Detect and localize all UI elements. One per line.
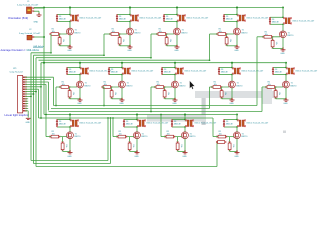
diode D3.1 bbox=[56, 119, 58, 127]
svg-text:BS170: BS170 bbox=[85, 85, 91, 87]
resistor R1.2b bbox=[118, 36, 121, 45]
capacitor C2 bbox=[27, 35, 34, 40]
wire pulldown bottom 2.2 bbox=[112, 98, 122, 99]
resistor R1.5b label bbox=[275, 42, 277, 45]
transistor T3.1 label bbox=[75, 133, 81, 138]
resistor R2.1a label bbox=[62, 82, 65, 86]
svg-text:1N4148: 1N4148 bbox=[69, 72, 76, 74]
svg-text:1N4148: 1N4148 bbox=[275, 72, 282, 74]
diode D2.5 label bbox=[275, 69, 282, 74]
ground cell 3.2 label bbox=[134, 156, 139, 158]
wire pair bottom 3.3 bbox=[172, 126, 186, 128]
wire X1 pin2 down bbox=[34, 11, 39, 14]
ground cell 2.5 bbox=[284, 98, 289, 101]
wire drain 3.2 bbox=[136, 127, 138, 132]
transistor T1.3 label bbox=[182, 30, 188, 35]
wire X1 to rail bbox=[34, 7, 44, 9]
resistor R2.4b label bbox=[224, 92, 226, 95]
transistor T1.1 bbox=[67, 28, 74, 35]
wire drain 3.3 bbox=[184, 127, 186, 132]
wire gate 2.4 bbox=[212, 86, 229, 88]
svg-text:1N4148: 1N4148 bbox=[126, 124, 133, 126]
ground JP1 bbox=[26, 118, 31, 119]
svg-text:10k: 10k bbox=[122, 39, 124, 42]
wire drain 2.5 bbox=[285, 75, 287, 82]
wire drain 3.1 bbox=[69, 127, 71, 132]
resistor R1.4a label bbox=[219, 29, 222, 33]
wire gate stub r2c3 bbox=[151, 86, 156, 88]
diode D1.1 bbox=[56, 14, 58, 21]
transistor T3.4 label bbox=[242, 133, 248, 138]
ground JP1 label bbox=[26, 122, 31, 124]
wire pulldown bottom 3.3 bbox=[178, 150, 185, 151]
wire ctrl row3 c4 bbox=[212, 118, 214, 137]
svg-text:10k: 10k bbox=[104, 84, 107, 86]
svg-text:T1: T1 bbox=[75, 30, 77, 32]
ground X1 bbox=[37, 13, 42, 16]
wire stair v48.5 bbox=[48, 82, 50, 111]
wire feed 4 bbox=[39, 59, 211, 61]
transistor T2.1 bbox=[77, 81, 84, 88]
wire drain 2.2 bbox=[121, 75, 123, 82]
relay coil K3.3 bbox=[185, 120, 194, 128]
ground cell 1.3 label bbox=[174, 50, 179, 52]
net label avantage bbox=[1, 49, 40, 52]
svg-text:GND: GND bbox=[119, 103, 124, 105]
relay coil K1.1 bbox=[70, 15, 79, 22]
svg-text:GND: GND bbox=[34, 22, 39, 24]
wire pair bottom 3.1 bbox=[57, 126, 71, 128]
transistor T2.2 bbox=[119, 81, 126, 88]
wire pair top 1.1 bbox=[57, 14, 71, 16]
ground cell 2.2 label bbox=[119, 103, 124, 105]
svg-text:BS170: BS170 bbox=[180, 85, 186, 87]
svg-text:T1: T1 bbox=[190, 133, 192, 135]
diode D3.1 label bbox=[59, 121, 66, 126]
transistor T3.4 bbox=[234, 132, 241, 139]
wire gate stub r2c5 bbox=[262, 86, 267, 88]
transistor T2.5 bbox=[283, 81, 290, 88]
resistor R1.3b bbox=[165, 36, 168, 45]
svg-text:1N4148: 1N4148 bbox=[174, 124, 181, 126]
ground cell 3.1 bbox=[68, 151, 73, 154]
wire pair top 1.3 bbox=[164, 14, 178, 16]
svg-text:T1: T1 bbox=[180, 83, 182, 85]
wire pulldown bottom 3.1 bbox=[63, 150, 70, 151]
resistor R3.3a label bbox=[167, 131, 170, 135]
resistor R1.1b bbox=[58, 36, 61, 45]
ground X1 label bbox=[34, 22, 39, 24]
ground cell 3.2 bbox=[135, 151, 140, 154]
ground cell 1.5 bbox=[281, 48, 286, 51]
resistor R1.4a bbox=[217, 33, 228, 36]
svg-text:G5V-1 7e-tri-tof_OO-z0T: G5V-1 7e-tri-tof_OO-z0T bbox=[79, 122, 102, 125]
svg-text:10k: 10k bbox=[52, 31, 55, 33]
svg-text:T1: T1 bbox=[75, 133, 77, 135]
svg-text:C1: C1 bbox=[27, 1, 29, 3]
resistor R3.2a label bbox=[119, 131, 122, 135]
transistor T1.3 bbox=[174, 28, 181, 35]
relay coil K3.1 bbox=[70, 120, 79, 128]
wire gate stub r2c1 bbox=[56, 86, 61, 88]
wire gate 1.3 bbox=[157, 33, 174, 35]
wire stair v41 bbox=[40, 63, 42, 118]
svg-text:10k: 10k bbox=[229, 39, 231, 42]
transistor T2.2 label bbox=[127, 83, 133, 88]
diode D1.5 bbox=[269, 17, 271, 24]
wire pulldown top 3.1 bbox=[62, 137, 64, 143]
wire gate stub r1c4 bbox=[210, 33, 218, 35]
wire rail row2 bbox=[41, 62, 286, 65]
ground cell 2.3 label bbox=[172, 103, 177, 105]
wire stub C2 bbox=[34, 36, 44, 38]
resistor R3.4b bbox=[228, 142, 231, 152]
wire pulldown bottom 3.2 bbox=[130, 150, 137, 151]
relay coil K2.1 label bbox=[89, 70, 112, 73]
diode D2.1 bbox=[66, 67, 68, 74]
resistor R3.4c bbox=[216, 141, 226, 144]
mouse cursor bbox=[190, 81, 195, 90]
wire drop cell 1.3 bbox=[176, 7, 178, 15]
wire source 1.2 bbox=[129, 35, 131, 47]
wire drain 2.1 bbox=[79, 75, 81, 82]
svg-text:5-reg 7e-tri-tof_OO-z0T: 5-reg 7e-tri-tof_OO-z0T bbox=[19, 32, 41, 35]
transistor T3.3 bbox=[182, 132, 189, 139]
wire ctrl row2 c3 bbox=[150, 87, 152, 112]
svg-text:G5V-1 7e-tri-tof_OO-z0T: G5V-1 7e-tri-tof_OO-z0T bbox=[246, 17, 269, 20]
transistor T2.1 label bbox=[85, 83, 91, 88]
resistor R1.2b label bbox=[122, 39, 124, 42]
transistor T1.4 bbox=[234, 28, 241, 35]
wire gate 2.5 bbox=[266, 86, 283, 88]
relay coil K3.1 label bbox=[79, 122, 102, 125]
svg-text:G5V-1 7e-tri-tof_OO-z0T: G5V-1 7e-tri-tof_OO-z0T bbox=[79, 17, 102, 20]
wire gate 3.3 bbox=[165, 136, 182, 138]
svg-text:10k: 10k bbox=[112, 31, 115, 33]
resistor R3.1b bbox=[61, 142, 64, 152]
diode D2.3 bbox=[161, 67, 163, 74]
resistor R1.1a bbox=[50, 33, 61, 36]
svg-text:T1: T1 bbox=[291, 83, 293, 85]
ground cell 1.4 label bbox=[234, 50, 239, 52]
svg-text:10k: 10k bbox=[232, 144, 234, 147]
svg-text:G5V-1 7e-tri-tof_OO-z0T: G5V-1 7e-tri-tof_OO-z0T bbox=[186, 17, 209, 20]
wire ctrl row2 c1 bbox=[55, 87, 57, 106]
relay coil K3.2 label bbox=[146, 122, 169, 125]
svg-text:T1: T1 bbox=[288, 32, 290, 34]
svg-text:10k: 10k bbox=[219, 134, 222, 136]
wire pulldown top 1.5 bbox=[272, 37, 274, 41]
wire gate 1.1 bbox=[50, 33, 67, 35]
resistor R3.2b label bbox=[132, 144, 134, 147]
resistor R2.2a label bbox=[104, 82, 107, 86]
svg-text:10k: 10k bbox=[62, 39, 64, 42]
svg-text:10k: 10k bbox=[214, 84, 217, 86]
wire pulldown top 3.3 bbox=[177, 137, 179, 143]
resistor R3.3b bbox=[176, 142, 179, 152]
resistor R3.2a bbox=[117, 135, 128, 138]
svg-text:10k: 10k bbox=[114, 92, 116, 95]
diode D1.4 label bbox=[226, 16, 233, 21]
svg-text:BS170: BS170 bbox=[127, 85, 133, 87]
wire pulldown top 2.1 bbox=[69, 87, 71, 91]
diode D1.3 label bbox=[166, 16, 173, 21]
wire pulldown top 2.5 bbox=[275, 87, 277, 91]
resistor R3.1b label bbox=[65, 144, 67, 147]
svg-text:G5V-1 7e-tri-tof_OO-z0T: G5V-1 7e-tri-tof_OO-z0T bbox=[139, 17, 162, 20]
wire pair bottom 2.2 bbox=[109, 74, 123, 76]
resistor R3.4a label bbox=[219, 131, 222, 135]
ground cell 1.3 bbox=[175, 45, 180, 48]
wire gate 1.2 bbox=[110, 33, 127, 35]
svg-text:GND: GND bbox=[127, 50, 132, 52]
ground cell 2.1 label bbox=[77, 103, 82, 105]
diode D1.2 label bbox=[119, 16, 126, 21]
ground cell 2.2 bbox=[120, 98, 125, 101]
ground cell 3.3 label bbox=[182, 156, 187, 158]
wire pair top 1.5 bbox=[270, 16, 284, 18]
wire gate stub r3c1 bbox=[46, 136, 51, 138]
relay coil K1.3 bbox=[177, 15, 186, 22]
svg-text:10k: 10k bbox=[119, 134, 122, 136]
net label row2 feed bbox=[33, 45, 45, 48]
transistor T1.2 bbox=[127, 28, 134, 35]
wire pair bottom 2.3 bbox=[162, 74, 176, 76]
transistor T1.2 label bbox=[135, 30, 141, 35]
artifact grey dot bbox=[283, 131, 286, 134]
svg-text:1N4148: 1N4148 bbox=[119, 19, 126, 21]
diode D3.2 label bbox=[126, 121, 133, 126]
wire pair top 2.1 bbox=[67, 67, 81, 69]
svg-text:GND: GND bbox=[172, 103, 177, 105]
resistor R1.4b label bbox=[229, 39, 231, 42]
artifact grey band lower bbox=[147, 115, 206, 122]
svg-text:C2: C2 bbox=[29, 29, 31, 31]
svg-text:GND: GND bbox=[67, 156, 72, 158]
diode D2.5 bbox=[272, 67, 274, 74]
net label orientation bbox=[8, 16, 28, 20]
wire pulldown bottom 3.4 bbox=[230, 150, 237, 151]
relay coil K1.3 label bbox=[186, 17, 209, 20]
wire pulldown bottom 1.5 bbox=[273, 47, 283, 48]
wire feed 1 bbox=[31, 52, 52, 54]
diode D3.4 bbox=[223, 119, 225, 127]
artifact grey patch right bbox=[262, 88, 272, 104]
svg-text:BS170: BS170 bbox=[142, 136, 148, 138]
svg-text:T1: T1 bbox=[242, 30, 244, 32]
svg-text:Orientation (519): Orientation (519) bbox=[8, 16, 28, 20]
wire pair top 3.3 bbox=[172, 119, 186, 121]
svg-text:10k: 10k bbox=[169, 39, 171, 42]
relay coil K2.3 label bbox=[184, 70, 207, 73]
diode D2.3 label bbox=[164, 69, 171, 74]
resistor R3.2b bbox=[128, 142, 131, 152]
resistor R1.3b label bbox=[169, 39, 171, 42]
wire pair top 3.2 bbox=[124, 119, 138, 121]
diode D3.3 label bbox=[174, 121, 181, 126]
svg-text:1N4148: 1N4148 bbox=[221, 72, 228, 74]
wire drop cell 2.4 bbox=[231, 62, 233, 68]
wires JP1 pin stubs bbox=[25, 77, 53, 111]
svg-text:BS170: BS170 bbox=[75, 32, 81, 34]
diode D2.4 bbox=[218, 67, 220, 74]
wire gate 3.4 bbox=[217, 136, 234, 138]
svg-text:T1: T1 bbox=[135, 30, 137, 32]
net label linear bbox=[5, 113, 29, 117]
wire gate stub r1c3 bbox=[151, 33, 158, 35]
resistor R2.3b label bbox=[167, 92, 169, 95]
wire drain 2.4 bbox=[231, 75, 233, 82]
wire gate stub r3c2 bbox=[113, 136, 118, 138]
svg-text:10k: 10k bbox=[167, 134, 170, 136]
wire pulldown bottom 2.3 bbox=[165, 98, 175, 99]
resistor R2.2b label bbox=[114, 92, 116, 95]
wire pair top 3.4 bbox=[224, 119, 238, 121]
wire bundle v31 bbox=[30, 53, 32, 161]
relay coil K3.2 bbox=[137, 120, 146, 128]
wire pair bottom 2.5 bbox=[273, 74, 287, 76]
relay coil K3.4 label bbox=[246, 122, 269, 125]
wire drain 2.3 bbox=[174, 75, 176, 82]
wire pair top 1.4 bbox=[224, 14, 238, 16]
svg-text:G5V-1 7e-tri-tof_OO-z0T: G5V-1 7e-tri-tof_OO-z0T bbox=[241, 70, 264, 73]
wire source 3.4 bbox=[236, 139, 238, 153]
wire pulldown top 2.2 bbox=[111, 87, 113, 91]
transistor T2.4 bbox=[229, 81, 236, 88]
svg-text:BS170: BS170 bbox=[135, 32, 141, 34]
svg-text:BS170: BS170 bbox=[242, 136, 248, 138]
wire pair top 2.3 bbox=[162, 67, 176, 69]
ground cell 1.2 label bbox=[127, 50, 132, 52]
wire pulldown bottom 2.1 bbox=[70, 98, 80, 99]
relay coil K2.5 label bbox=[295, 70, 318, 73]
resistor R3.3a bbox=[165, 135, 176, 138]
wire bottom 3 bbox=[36, 141, 217, 167]
resistor R1.2a bbox=[110, 33, 121, 36]
resistor R2.1a bbox=[60, 86, 71, 89]
diode D3.2 bbox=[123, 119, 125, 127]
svg-text:G5V-1 7e-tri-tof_OO-z0T: G5V-1 7e-tri-tof_OO-z0T bbox=[194, 122, 217, 125]
ground cell 2.1 bbox=[78, 98, 83, 101]
ground cell 1.1 bbox=[68, 45, 73, 48]
svg-text:10k: 10k bbox=[268, 84, 271, 86]
relay coil K2.4 bbox=[232, 68, 241, 75]
resistor R1.3a label bbox=[159, 29, 162, 33]
transistor T1.4 label bbox=[242, 30, 248, 35]
svg-text:T1: T1 bbox=[242, 133, 244, 135]
wire ctrl row1 c2 bbox=[103, 34, 105, 55]
svg-text:GND: GND bbox=[77, 103, 82, 105]
wire bus A bbox=[54, 105, 258, 107]
resistor R1.4b bbox=[225, 36, 228, 45]
resistor R2.5a label bbox=[268, 82, 271, 86]
svg-text:G5V-1 7e-tri-tof_OO-z0T: G5V-1 7e-tri-tof_OO-z0T bbox=[146, 122, 169, 125]
wire feed 2 bbox=[34, 54, 105, 56]
wire pulldown top 1.2 bbox=[119, 34, 121, 38]
wire pair bottom 3.4 bbox=[224, 126, 238, 128]
artifact grey band vertical bbox=[202, 98, 206, 125]
ground cell 3.3 bbox=[183, 151, 188, 154]
diode D2.2 label bbox=[111, 69, 118, 74]
wire source 3.3 bbox=[184, 139, 186, 153]
resistor R2.4a label bbox=[214, 82, 217, 86]
svg-text:1N4148: 1N4148 bbox=[226, 19, 233, 21]
svg-text:10k: 10k bbox=[219, 31, 222, 33]
wire ctrl row3 c2 bbox=[112, 117, 114, 136]
resistor R3.4a bbox=[217, 135, 228, 138]
wire pulldown top 1.3 bbox=[166, 34, 168, 38]
resistor R1.1a label bbox=[52, 29, 55, 33]
diode D3.4 label bbox=[226, 121, 233, 126]
svg-text:G5V-1 7e-tri-tof_OO-z0T: G5V-1 7e-tri-tof_OO-z0T bbox=[131, 70, 154, 73]
wire drop cell 3.3 bbox=[184, 114, 186, 120]
transistor T3.2 bbox=[134, 132, 141, 139]
resistor R2.5a bbox=[266, 86, 277, 89]
svg-text:GND: GND bbox=[283, 103, 288, 105]
wire pulldown top 2.3 bbox=[164, 87, 166, 91]
resistor R2.1b label bbox=[72, 92, 74, 95]
svg-text:GML A4c/w: GML A4c/w bbox=[27, 49, 40, 52]
wire ctrl row1 c3 bbox=[150, 34, 152, 58]
diode D1.1 label bbox=[59, 16, 66, 21]
transistor T2.5 label bbox=[291, 83, 297, 88]
ground cell 3.4 label bbox=[234, 156, 239, 158]
relay coil K1.5 bbox=[283, 17, 292, 24]
wire drop cell 3.2 bbox=[136, 114, 138, 120]
wire pair bottom 1.1 bbox=[57, 21, 71, 23]
diode D1.2 bbox=[116, 14, 118, 21]
wire pair bottom 1.3 bbox=[164, 21, 178, 23]
ground cell 1.1 label bbox=[67, 50, 72, 52]
resistor R2.4b bbox=[220, 89, 223, 98]
wire stair v53.5 bbox=[53, 77, 55, 105]
transistor T1.5 label bbox=[288, 32, 294, 37]
wire source 2.5 bbox=[285, 88, 287, 100]
wire drop cell 3.1 bbox=[69, 114, 71, 120]
svg-text:10k: 10k bbox=[157, 84, 160, 86]
svg-text:T1: T1 bbox=[85, 83, 87, 85]
relay coil K1.1 label bbox=[79, 17, 102, 20]
svg-text:BS170: BS170 bbox=[288, 35, 294, 37]
svg-text:JP1: JP1 bbox=[13, 68, 17, 70]
svg-text:10k: 10k bbox=[52, 134, 55, 136]
svg-text:1N4148: 1N4148 bbox=[59, 124, 66, 126]
relay coil K2.2 bbox=[122, 68, 131, 75]
wire bottom 1 bbox=[31, 118, 108, 161]
resistor R3.3b label bbox=[180, 144, 182, 147]
relay coil K1.4 label bbox=[246, 17, 269, 20]
transistor T1.1 label bbox=[75, 30, 81, 35]
wire ctrl row1 c4 bbox=[209, 34, 211, 60]
transistor T2.4 label bbox=[237, 83, 243, 88]
wire feed 3 bbox=[36, 57, 152, 59]
svg-text:GND: GND bbox=[174, 50, 179, 52]
svg-text:G5V-1 7e-tri-tof_OO-z0T: G5V-1 7e-tri-tof_OO-z0T bbox=[292, 20, 315, 23]
svg-text:Linear light loop/low: Linear light loop/low bbox=[5, 113, 29, 117]
ground cell 1.2 bbox=[128, 45, 133, 48]
wire pulldown bottom 2.5 bbox=[276, 98, 286, 99]
wire pulldown top 3.4 bbox=[229, 137, 231, 143]
svg-text:T1: T1 bbox=[142, 133, 144, 135]
connector JP1 label bbox=[10, 68, 23, 74]
svg-text:BS170: BS170 bbox=[190, 136, 196, 138]
wire gate stub r3c3 bbox=[161, 136, 166, 138]
svg-text:G5V-1 7e-tri-tof_OO-z0T: G5V-1 7e-tri-tof_OO-z0T bbox=[246, 122, 269, 125]
wire gate stub r2c4 bbox=[210, 86, 213, 88]
relay coil K1.4 bbox=[237, 15, 246, 22]
wire source 2.3 bbox=[174, 88, 176, 100]
diode D1.4 bbox=[223, 14, 225, 21]
